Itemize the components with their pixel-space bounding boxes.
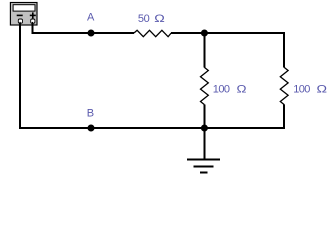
svg-text:Ω: Ω — [317, 83, 328, 95]
junction dot: bottom of R2 / ground — [201, 125, 208, 132]
wire: right branch bottom section — [283, 105, 285, 130]
node B junction dot — [88, 125, 95, 132]
junction dot: top of R2 — [201, 30, 208, 37]
wire: R2 bottom to bottom rail — [203, 105, 205, 129]
ground — [187, 159, 220, 172]
wire: voltmeter minus terminal down left side to bottom rail — [19, 23, 21, 129]
minus terminal label — [17, 14, 23, 16]
wire: top rail to R2 top — [203, 33, 205, 68]
wire: top rail right section + right branch down to R3 — [171, 33, 284, 68]
voltmeter U1 — [10, 3, 37, 26]
svg-text:50: 50 — [138, 13, 150, 25]
resistor R3 100 ohm — [280, 67, 288, 104]
wire: bottom rail — [19, 127, 285, 129]
terminal - — [18, 19, 22, 23]
svg-text:Ω: Ω — [237, 82, 247, 95]
node A junction dot — [88, 30, 95, 37]
svg-text:100: 100 — [213, 83, 230, 95]
svg-text:B: B — [87, 107, 94, 119]
svg-text:100: 100 — [293, 83, 310, 95]
resistor R1 50 ohm — [134, 30, 171, 36]
wire: voltmeter plus terminal to top rail left section — [32, 23, 134, 33]
resistor R2 100 ohm — [201, 67, 209, 104]
wire: ground stem — [203, 128, 205, 159]
stub inside minus terminal — [19, 22, 21, 24]
plus terminal label — [30, 12, 36, 18]
stub inside plus terminal — [32, 22, 34, 24]
svg-text:Ω: Ω — [154, 12, 165, 24]
terminal + — [31, 19, 35, 23]
svg-text:A: A — [87, 12, 95, 24]
